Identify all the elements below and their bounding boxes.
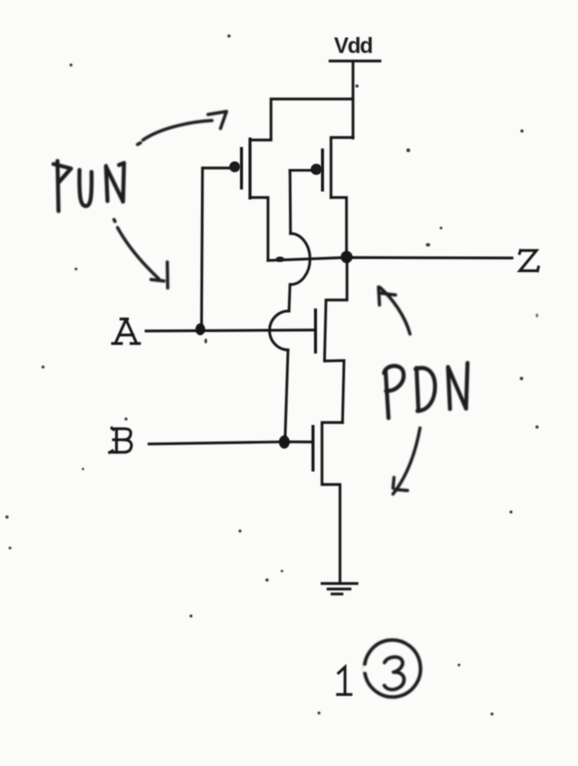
svg-text:Vdd: Vdd — [334, 33, 372, 58]
